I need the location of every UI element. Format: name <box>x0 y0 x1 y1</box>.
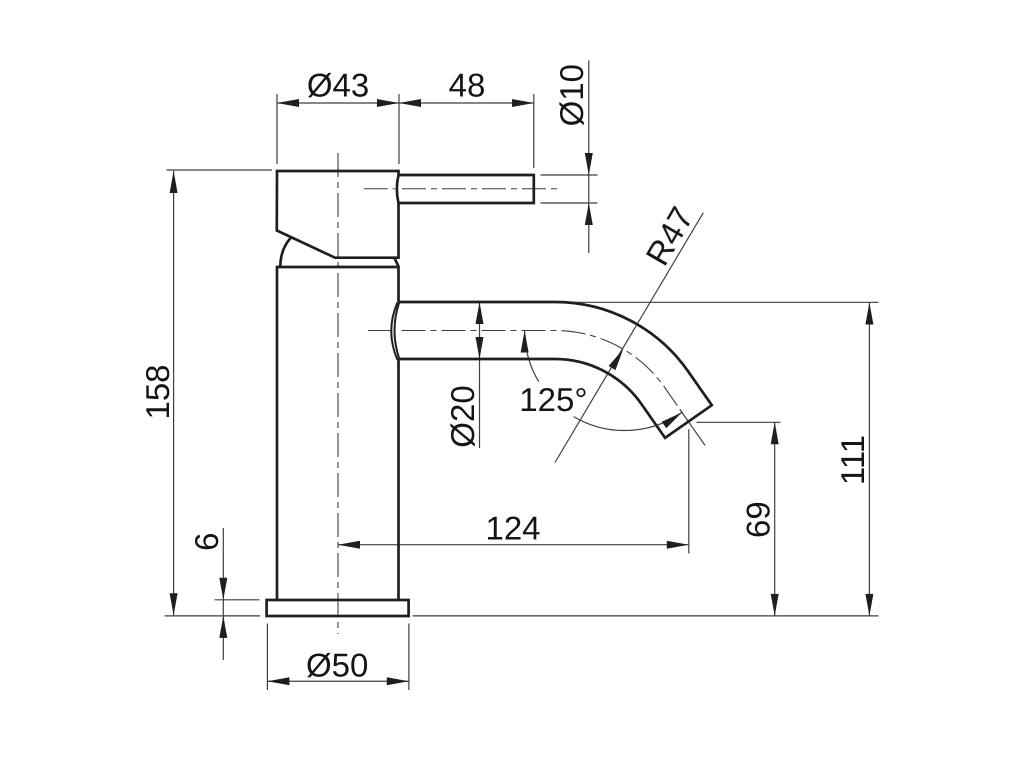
svg-text:Ø10: Ø10 <box>553 64 590 126</box>
svg-text:158: 158 <box>139 364 176 419</box>
svg-text:48: 48 <box>449 67 486 104</box>
svg-text:Ø20: Ø20 <box>444 385 481 447</box>
svg-text:125°: 125° <box>519 381 587 418</box>
svg-text:6: 6 <box>188 533 225 551</box>
svg-text:124: 124 <box>485 509 540 546</box>
svg-text:Ø50: Ø50 <box>306 646 368 683</box>
svg-text:111: 111 <box>834 435 871 485</box>
svg-text:Ø43: Ø43 <box>307 67 369 104</box>
svg-text:69: 69 <box>739 501 776 538</box>
